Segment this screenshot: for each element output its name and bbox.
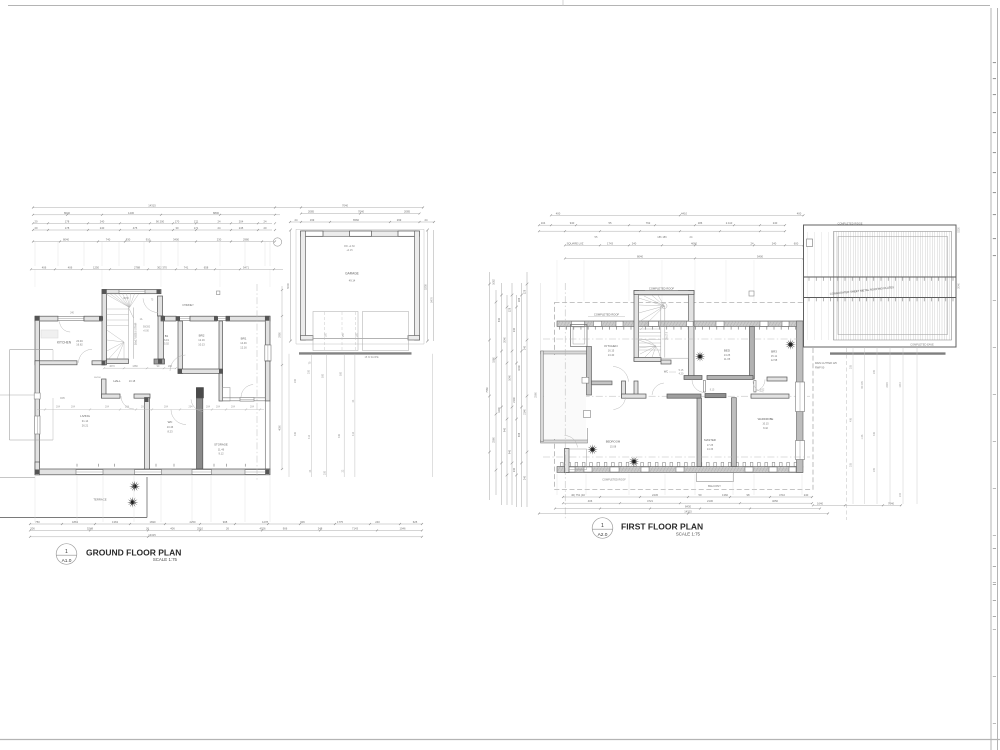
svg-text:WC: WC <box>168 420 173 424</box>
svg-text:+0.15: +0.15 <box>346 249 353 252</box>
garage wall top <box>301 231 420 236</box>
garage wall bottom a <box>301 336 314 341</box>
door arc kitchen top <box>60 321 71 332</box>
svg-text:940: 940 <box>504 427 507 432</box>
door arc br1 <box>241 385 253 398</box>
svg-text:STORAGE: STORAGE <box>214 443 228 447</box>
dimension row LB3 <box>30 536 422 538</box>
svg-text:4721: 4721 <box>647 499 653 503</box>
svg-text:186 186: 186 186 <box>657 235 667 239</box>
closet br1 <box>223 388 231 402</box>
svg-text:26: 26 <box>226 526 229 530</box>
svg-text:24: 24 <box>425 218 428 222</box>
balcony box first floor <box>541 351 588 354</box>
sun symbol ff 2 <box>785 339 796 350</box>
wall br bottom a <box>178 369 223 373</box>
dimension row L2 <box>33 214 280 216</box>
svg-text:24: 24 <box>295 218 298 222</box>
door arc ff 6 <box>753 381 764 392</box>
bay window outline <box>10 349 54 351</box>
garage parking marks <box>324 312 326 350</box>
svg-text:WC: WC <box>664 370 668 374</box>
svg-text:1240: 1240 <box>498 407 501 413</box>
title circle first floor <box>592 518 613 539</box>
svg-text:762: 762 <box>646 221 651 225</box>
svg-text:8040: 8040 <box>64 211 70 215</box>
svg-text:12.16: 12.16 <box>240 345 247 349</box>
svg-text:14.33: 14.33 <box>707 448 714 451</box>
svg-text:1380: 1380 <box>132 365 138 368</box>
svg-text:24: 24 <box>309 469 312 472</box>
wall left upper <box>35 316 40 361</box>
svg-text:200: 200 <box>324 470 327 475</box>
svg-text:1560: 1560 <box>493 357 496 363</box>
roof plan inner <box>834 232 952 341</box>
garage window top 2 <box>350 231 372 236</box>
window right wall <box>265 345 271 361</box>
svg-text:LIVING: LIVING <box>80 414 91 418</box>
dimension row RB3 <box>555 508 820 510</box>
wall br1 vertical ext <box>219 373 223 401</box>
svg-text:4060: 4060 <box>691 241 697 245</box>
svg-text:245: 245 <box>239 226 244 230</box>
svg-text:4670: 4670 <box>109 365 115 368</box>
svg-text:4410: 4410 <box>681 211 687 215</box>
svg-text:BR2: BR2 <box>199 334 205 338</box>
door arc hall lower <box>171 410 186 425</box>
extension lines below first floor <box>556 474 558 495</box>
svg-text:178: 178 <box>65 219 70 223</box>
svg-text:RWP 90: RWP 90 <box>815 366 825 369</box>
window ff right 2 <box>796 441 805 460</box>
svg-text:1360: 1360 <box>722 493 728 497</box>
wall corridor piece <box>102 379 107 398</box>
dimension row R3 <box>565 244 804 246</box>
svg-text:206: 206 <box>30 526 35 530</box>
door arc entrance <box>143 298 158 312</box>
roof overhang dashed outline <box>555 303 814 490</box>
roof ridge lines <box>804 276 957 278</box>
svg-text:240: 240 <box>100 226 105 230</box>
svg-text:171: 171 <box>194 219 199 223</box>
svg-text:406: 406 <box>170 526 175 530</box>
section line vertical <box>256 284 258 480</box>
svg-text:658: 658 <box>204 265 209 269</box>
door arc corridor <box>121 396 134 409</box>
svg-text:240: 240 <box>899 492 902 497</box>
svg-text:204: 204 <box>216 406 221 409</box>
window bottom 4 <box>245 470 266 475</box>
svg-text:2560: 2560 <box>535 392 538 398</box>
wall kitchen bottom b <box>92 361 107 365</box>
svg-text:1640: 1640 <box>817 501 823 505</box>
svg-text:2140: 2140 <box>513 397 516 403</box>
dimension row L6 <box>31 268 283 270</box>
svg-text:240: 240 <box>100 219 105 223</box>
svg-text:24: 24 <box>751 241 754 245</box>
svg-text:24: 24 <box>264 219 267 223</box>
window marker left sq <box>34 393 40 399</box>
line to left margin <box>0 394 35 396</box>
door arc ff terrace <box>565 436 578 448</box>
svg-text:5400: 5400 <box>757 254 763 258</box>
svg-text:171: 171 <box>194 226 199 230</box>
wall ff stair left <box>634 291 639 362</box>
reference circle <box>273 238 281 246</box>
svg-text:A1.0: A1.0 <box>62 558 72 564</box>
sun symbol 1 <box>129 481 140 492</box>
svg-text:204: 204 <box>189 406 194 409</box>
svg-text:128: 128 <box>509 307 512 312</box>
window boxes ff bottom wall <box>566 467 575 472</box>
svg-text:90 200: 90 200 <box>156 219 165 223</box>
svg-text:20: 20 <box>35 226 38 230</box>
svg-text:5248: 5248 <box>87 526 93 530</box>
svg-text:400: 400 <box>797 211 802 215</box>
svg-text:24: 24 <box>690 235 693 239</box>
svg-text:90 205: 90 205 <box>861 381 864 389</box>
svg-text:16.62: 16.62 <box>76 342 83 346</box>
dimension row L3 <box>33 222 272 224</box>
window kitchen top 1 <box>58 317 84 321</box>
svg-text:178: 178 <box>65 226 70 230</box>
svg-text:WARDROBE: WARDROBE <box>758 417 774 421</box>
svg-text:250: 250 <box>325 332 327 337</box>
label completed roof top <box>645 290 678 292</box>
svg-text:TERRACE: TERRACE <box>93 498 106 502</box>
svg-text:406: 406 <box>294 431 297 436</box>
title block left rule <box>990 8 992 750</box>
garage dim left <box>290 230 292 341</box>
svg-text:1: 1 <box>601 523 604 529</box>
wall first floor bottom <box>557 467 803 473</box>
svg-text:2040: 2040 <box>958 283 961 289</box>
svg-text:14315: 14315 <box>148 533 156 537</box>
svg-text:906: 906 <box>300 520 305 524</box>
terrace right edge <box>146 477 148 518</box>
svg-text:30: 30 <box>176 226 179 230</box>
svg-text:230: 230 <box>217 238 222 242</box>
svg-text:204: 204 <box>206 406 211 409</box>
door leaf ff 1 <box>703 381 705 393</box>
svg-text:2788: 2788 <box>134 265 140 269</box>
svg-text:4050: 4050 <box>772 499 778 503</box>
wall stair box top <box>102 290 161 294</box>
svg-text:15.11: 15.11 <box>771 354 778 358</box>
svg-text:SCALE 1:75: SCALE 1:75 <box>676 531 701 536</box>
svg-text:GROUND FLOOR PLAN: GROUND FLOOR PLAN <box>86 547 181 557</box>
roof plan inner b <box>838 237 948 335</box>
garage dim row 1 <box>301 213 420 215</box>
svg-text:1430: 1430 <box>128 211 134 215</box>
dimension row R1 <box>539 224 785 226</box>
svg-text:4.20: 4.20 <box>679 372 684 375</box>
svg-text:200: 200 <box>308 369 311 374</box>
svg-text:BR1: BR1 <box>241 337 247 341</box>
svg-text:8.23: 8.23 <box>167 429 173 433</box>
svg-text:475: 475 <box>133 226 138 230</box>
svg-text:8.42: 8.42 <box>763 427 768 430</box>
svg-text:1040: 1040 <box>518 365 521 371</box>
garage dim right 1 <box>427 230 429 341</box>
chimney marker ff <box>749 291 754 296</box>
svg-text:17.25: 17.25 <box>707 444 714 447</box>
svg-text:14.46: 14.46 <box>240 341 247 345</box>
svg-text:940: 940 <box>509 449 512 454</box>
garage parking rect 2 <box>363 312 409 351</box>
svg-text:240: 240 <box>772 241 777 245</box>
wall ff stair right <box>689 291 695 380</box>
svg-text:KITCHEN: KITCHEN <box>57 341 72 345</box>
svg-text:830: 830 <box>126 238 131 242</box>
svg-text:248: 248 <box>318 526 323 530</box>
svg-text:406: 406 <box>873 431 876 436</box>
chimney marker top wall <box>217 291 220 295</box>
svg-text:4710: 4710 <box>779 493 785 497</box>
svg-text:7040: 7040 <box>342 204 348 208</box>
svg-text:2040: 2040 <box>504 337 507 343</box>
svg-text:D05: D05 <box>60 397 65 400</box>
garage wall right <box>415 231 420 340</box>
wall br divider 2 <box>219 321 223 374</box>
svg-text:GARAGE: GARAGE <box>345 272 359 276</box>
svg-text:SCALE 1:75: SCALE 1:75 <box>153 557 178 562</box>
garage apron line <box>299 352 412 354</box>
driveway lines below garage <box>288 354 290 477</box>
balcony bottom rect <box>697 473 734 482</box>
wall ff mid b <box>667 394 701 398</box>
svg-text:186: 186 <box>518 297 521 302</box>
svg-text:B1: B1 <box>165 334 169 338</box>
svg-text:MASTER: MASTER <box>704 438 716 442</box>
extension lines ground floor <box>34 242 36 266</box>
svg-text:240: 240 <box>70 313 75 315</box>
wall ff v2 <box>732 398 737 467</box>
svg-text:3400: 3400 <box>173 238 179 242</box>
wall top right segment b <box>190 316 217 321</box>
section line ff vertical <box>564 283 566 520</box>
dimension row RB2 <box>563 502 812 504</box>
svg-text:20: 20 <box>264 226 267 230</box>
svg-text:302 370: 302 370 <box>157 265 167 269</box>
svg-text:1062: 1062 <box>493 279 496 285</box>
svg-text:SQUARE LVZ: SQUARE LVZ <box>567 241 584 245</box>
svg-text:1775: 1775 <box>337 520 343 524</box>
garage window top 3 <box>398 231 416 236</box>
svg-text:170: 170 <box>175 219 180 223</box>
svg-text:11.05: 11.05 <box>724 357 731 361</box>
svg-text:400: 400 <box>556 211 561 215</box>
interior dimension string <box>37 409 264 411</box>
svg-text:90/60: 90/60 <box>123 298 129 300</box>
svg-text:1.06: 1.06 <box>861 434 864 439</box>
svg-text:250: 250 <box>343 332 345 337</box>
svg-text:1250: 1250 <box>93 265 99 269</box>
svg-text:938: 938 <box>518 432 521 437</box>
wall top right segment c <box>226 316 270 321</box>
svg-text:HALL: HALL <box>113 379 121 383</box>
svg-text:FIRST FLOOR PLAN: FIRST FLOOR PLAN <box>621 521 703 531</box>
svg-text:5000: 5000 <box>286 283 290 289</box>
svg-text:204: 204 <box>250 406 255 409</box>
svg-text:200: 200 <box>294 378 297 383</box>
svg-text:240: 240 <box>513 467 516 472</box>
svg-text:1040: 1040 <box>509 375 512 381</box>
wall bottom <box>35 469 270 475</box>
chimney block <box>196 388 203 399</box>
wall ff mid c <box>705 394 726 398</box>
svg-text:14315: 14315 <box>148 204 156 208</box>
svg-text:9.15: 9.15 <box>710 390 715 392</box>
fold mark top <box>562 0 564 6</box>
wall corridor bottom b <box>134 394 150 398</box>
wall ff stair top <box>634 291 694 295</box>
svg-text:7143: 7143 <box>352 526 358 530</box>
dimension row L5 <box>33 241 273 243</box>
svg-text:410: 410 <box>308 434 311 439</box>
svg-text:13.40: 13.40 <box>608 353 615 357</box>
dimension row L4 <box>33 229 272 231</box>
wall ff mid d <box>751 394 789 398</box>
svg-text:55: 55 <box>595 235 598 239</box>
dimension row LB2 <box>30 529 422 531</box>
svg-text:5230: 5230 <box>958 227 961 233</box>
wall right lower <box>265 401 270 469</box>
stair ff inner rect <box>639 295 689 358</box>
extension lines first floor <box>556 260 558 301</box>
svg-text:2560: 2560 <box>493 437 496 443</box>
door arc kitchen <box>79 349 93 363</box>
roof plan outer <box>804 225 957 347</box>
garage dim right 2 <box>433 230 435 341</box>
svg-text:15 % SLOPE: 15 % SLOPE <box>365 356 379 359</box>
dimension row RB4 <box>539 513 828 515</box>
svg-text:26: 26 <box>146 526 149 530</box>
sun symbol ff 3 <box>587 444 598 455</box>
dimension row R0 <box>551 214 804 216</box>
closet box ff <box>571 325 588 347</box>
garage door line <box>313 338 408 340</box>
dimension row RB1 <box>563 496 812 498</box>
dimension row roof below <box>813 504 901 506</box>
hall dimension string <box>104 367 176 369</box>
svg-text:2140: 2140 <box>524 409 527 415</box>
wall right mid <box>265 361 270 401</box>
garage window top 1 <box>302 231 323 236</box>
svg-text:205: 205 <box>873 369 876 374</box>
svg-text:7040: 7040 <box>358 210 364 214</box>
svg-text:15.08: 15.08 <box>610 445 617 448</box>
window bottom 2 <box>135 470 162 475</box>
svg-text:750: 750 <box>35 520 40 524</box>
title block text marks <box>993 62 996 63</box>
svg-text:204: 204 <box>125 406 130 409</box>
window ff right 1 <box>796 382 805 412</box>
wall ff kitchen horiz <box>592 381 613 385</box>
svg-text:10.15: 10.15 <box>762 423 769 426</box>
garage eave line <box>296 228 424 230</box>
svg-text:A2.0: A2.0 <box>598 532 608 538</box>
svg-text:13.25: 13.25 <box>724 353 731 357</box>
svg-text:12.16: 12.16 <box>198 338 205 342</box>
svg-text:3.62: 3.62 <box>760 390 765 392</box>
svg-text:2445: 2445 <box>652 493 658 497</box>
svg-text:12.58: 12.58 <box>771 358 778 362</box>
window stair top <box>119 290 145 294</box>
svg-text:26.21: 26.21 <box>82 424 89 428</box>
terrace bottom edge <box>0 517 147 519</box>
terrace top edge <box>0 476 35 478</box>
wall right upper <box>265 316 270 345</box>
svg-text:940: 940 <box>570 221 575 225</box>
wall storage vertical <box>197 398 203 469</box>
svg-text:10.18: 10.18 <box>129 379 136 383</box>
door arc br2 <box>170 355 185 371</box>
svg-text:BED: BED <box>724 349 731 353</box>
wall ff nook v2 <box>634 381 638 398</box>
title circle ground floor <box>56 544 77 565</box>
wall ff nook v1 <box>622 381 626 398</box>
svg-text:205: 205 <box>850 364 853 369</box>
svg-text:240: 240 <box>513 327 516 332</box>
svg-text:1743: 1743 <box>607 241 613 245</box>
svg-text:COMPLETED RIDGE: COMPLETED RIDGE <box>837 221 862 225</box>
svg-text:1863: 1863 <box>72 520 78 524</box>
svg-text:240: 240 <box>804 493 809 497</box>
svg-text:50: 50 <box>699 493 702 497</box>
roof plan hatch <box>834 232 952 341</box>
svg-text:COMPLETED EAVE: COMPLETED EAVE <box>910 342 934 346</box>
svg-text:910: 910 <box>146 238 151 242</box>
svg-text:6.19: 6.19 <box>164 339 169 342</box>
section line ff upper <box>543 338 810 340</box>
svg-text:CHIMNEY: CHIMNEY <box>182 304 194 307</box>
svg-text:BR3: BR3 <box>771 350 777 354</box>
wall top mid segment <box>84 316 102 321</box>
svg-text:104: 104 <box>541 221 546 225</box>
section line ff lower <box>543 456 810 458</box>
svg-text:2085: 2085 <box>404 210 410 214</box>
wall ff kitchen vertical <box>587 347 592 396</box>
svg-text:406: 406 <box>850 417 853 422</box>
svg-text:1A: 1A <box>140 318 143 321</box>
svg-text:1: 1 <box>65 549 68 555</box>
svg-text:4026: 4026 <box>260 526 266 530</box>
svg-text:31.14: 31.14 <box>82 419 89 423</box>
svg-text:11.46: 11.46 <box>218 448 225 452</box>
svg-text:406: 406 <box>42 265 47 269</box>
svg-text:200: 200 <box>168 365 173 368</box>
wall kitchen bottom a <box>35 361 77 365</box>
svg-text:7560: 7560 <box>486 387 489 393</box>
window boxes ff top wall <box>572 321 585 326</box>
wall ff mid a <box>622 394 647 398</box>
svg-text:RD +2.60: RD +2.60 <box>344 245 355 248</box>
svg-text:2250: 2250 <box>190 520 196 524</box>
svg-text:205: 205 <box>850 462 853 467</box>
sun symbol ff 1 <box>695 351 706 362</box>
wall ff stair bottom a <box>634 358 661 362</box>
door arc ff 5a <box>613 367 628 382</box>
svg-text:500: 500 <box>340 371 343 376</box>
dimension row LB1 <box>30 523 422 525</box>
svg-text:600: 600 <box>794 241 799 245</box>
svg-text:90: 90 <box>157 365 160 368</box>
window kitchen top 2 <box>86 317 98 321</box>
door arc ff 1 <box>692 380 705 393</box>
svg-text:2510: 2510 <box>197 526 203 530</box>
svg-text:2130: 2130 <box>707 499 713 503</box>
